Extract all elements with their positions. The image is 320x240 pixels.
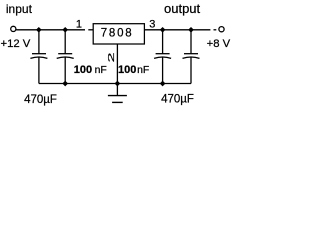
- wire: pin 1 stub into 7808: [88, 29, 93, 31]
- capacitor C3 curved plate: [154, 57, 171, 58]
- wire: top rail from 7808 pin3 to output side: [144, 29, 210, 31]
- capacitor C2 curved plate: [57, 57, 74, 58]
- wire: bottom ground rail: [39, 83, 191, 85]
- svg-text:470µF: 470µF: [161, 94, 194, 106]
- svg-text:7808: 7808: [101, 27, 134, 39]
- value label 470uF (right): [161, 94, 194, 106]
- capacitor C4 bottom lead: [190, 57, 192, 83]
- node: junction dot at C4 top: [188, 27, 194, 33]
- wire: top rail from input terminal to pin1 label area: [16, 29, 85, 31]
- capacitor C4 curved plate: [183, 57, 200, 58]
- output terminal circle: [219, 27, 224, 32]
- ground bar 2: [112, 101, 123, 103]
- svg-text:+12 V: +12 V: [1, 38, 31, 50]
- svg-text:input: input: [6, 2, 33, 16]
- pin number 1: [76, 19, 82, 31]
- pin number 2 (rotated): [107, 52, 116, 62]
- ground bar 1: [108, 95, 127, 97]
- capacitor C2 bottom lead: [64, 57, 66, 83]
- capacitor C3 top plate: [156, 53, 170, 55]
- svg-text:1: 1: [76, 19, 82, 31]
- label "+12 V": [1, 38, 31, 50]
- node: junction dot at C2 bottom: [62, 81, 68, 87]
- value label 100 nF (left): [74, 64, 107, 76]
- svg-text:100: 100: [118, 64, 136, 76]
- ground stub: [116, 84, 118, 96]
- capacitor C1 470uF top lead: [38, 30, 40, 54]
- capacitor C1 bottom lead: [38, 57, 40, 83]
- node: junction dot at C3 bottom: [160, 81, 166, 87]
- svg-text:nF: nF: [95, 64, 107, 76]
- svg-text:2: 2: [107, 52, 116, 62]
- label "+8 V": [207, 38, 231, 50]
- value label 100 nF (right): [118, 64, 149, 76]
- capacitor C4 top plate: [184, 53, 198, 55]
- node: junction dot at pin2/ground: [115, 81, 121, 87]
- value label 470uF (left): [24, 94, 57, 106]
- svg-text:nF: nF: [137, 64, 149, 76]
- capacitor C1 top plate: [32, 53, 46, 55]
- svg-text:+8 V: +8 V: [207, 38, 231, 50]
- value label 7808: [101, 27, 134, 39]
- wire: 7808 pin 2 down to ground rail: [116, 44, 118, 84]
- capacitor C3 100nF top lead: [162, 30, 164, 54]
- capacitor C3 bottom lead: [162, 57, 164, 83]
- capacitor C4 470uF top lead: [190, 30, 192, 54]
- svg-text:3: 3: [149, 19, 155, 31]
- svg-text:output: output: [164, 1, 201, 16]
- label "input": [6, 2, 33, 16]
- op-amp/regulator U1 7808 box: [93, 24, 144, 44]
- capacitor C2 100nF top lead: [64, 30, 66, 54]
- input terminal circle: [11, 26, 16, 31]
- node: junction dot at C3 top: [160, 27, 166, 33]
- capacitor C2 top plate: [58, 53, 72, 55]
- svg-text:100: 100: [74, 64, 92, 76]
- pin number 3: [149, 19, 155, 31]
- label "output": [164, 1, 201, 16]
- node: junction dot at C1 top: [36, 27, 42, 33]
- node: junction dot at C2 top: [62, 27, 68, 33]
- svg-text:470µF: 470µF: [24, 94, 57, 106]
- wire: stub to output terminal: [214, 29, 217, 31]
- capacitor C1 curved plate: [30, 57, 47, 58]
